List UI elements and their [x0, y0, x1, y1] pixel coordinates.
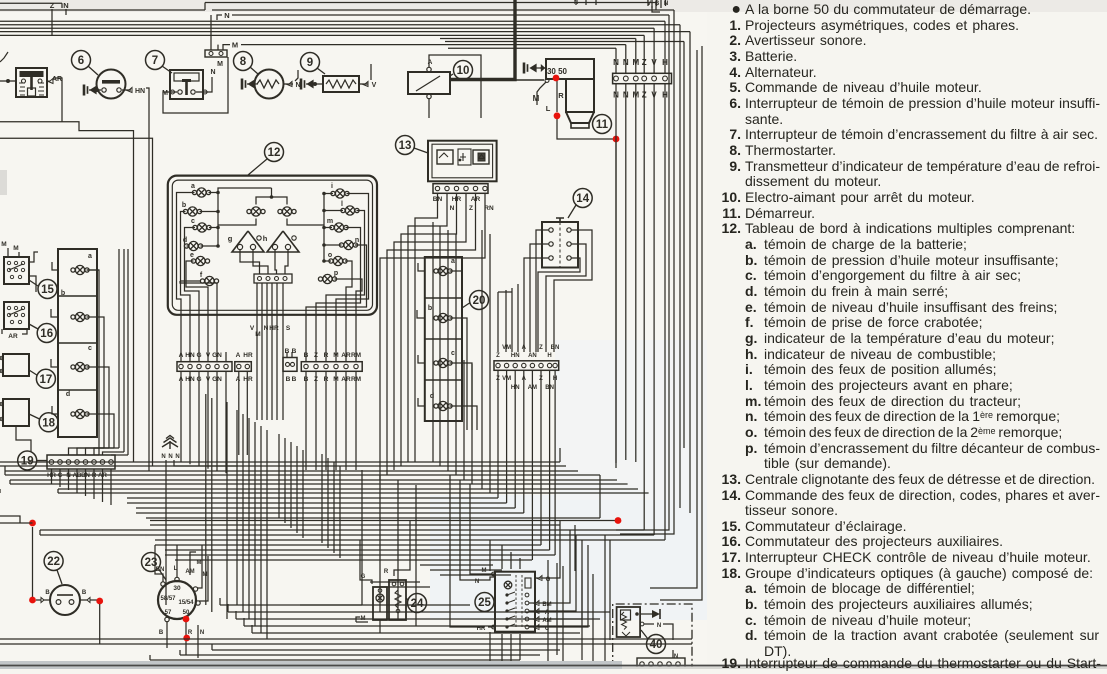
page bottom strip	[0, 661, 622, 669]
node red R	[554, 112, 561, 119]
component 5 commande niveau huile	[16, 68, 47, 97]
component 7 interrupteur filtre air	[146, 51, 165, 70]
wire strip20 right rails	[450, 270, 463, 272]
node red 23 a	[183, 616, 190, 623]
wire panel12 inner loops	[218, 188, 272, 193]
wire comp7 loop	[163, 57, 228, 113]
component 40 solenoid	[617, 607, 641, 637]
circled 15	[38, 280, 57, 299]
wire strips drop	[180, 371, 182, 462]
circled 40	[647, 635, 666, 654]
wire strip18 right rails	[87, 269, 99, 271]
wire starter to bundle	[557, 136, 616, 139]
wire lamps e f to left edge	[186, 261, 194, 270]
wire comp40 N lead	[640, 622, 644, 626]
lamp 12n	[339, 240, 357, 249]
wire strip18 left stubs	[52, 262, 58, 270]
wire comp6 HN	[122, 89, 131, 91]
wire 6pin columns down	[615, 84, 617, 468]
ground comp6	[84, 85, 100, 96]
wire comp18 lead	[16, 426, 31, 452]
lamp 12e	[191, 256, 209, 265]
wire left drop pair	[148, 98, 150, 471]
component 9 transmetteur temperature	[301, 53, 320, 72]
component 15 commutateur eclairage	[4, 257, 29, 284]
connector 40 bottom	[637, 658, 685, 669]
lamp 20d	[434, 401, 452, 410]
circled 22	[44, 552, 63, 571]
lamp 20c	[434, 358, 452, 367]
lamp 18a	[71, 265, 89, 274]
wire strip20 stubs	[418, 263, 425, 271]
wire top right stubs	[575, 0, 577, 5]
component 22 avertisseur horn	[50, 585, 80, 615]
node red 30-50	[553, 75, 560, 82]
wire comp8 right	[284, 83, 293, 85]
wire comp23 bottom	[166, 622, 168, 648]
wire conn19 drops	[51, 469, 53, 484]
wire comp7 right	[196, 91, 208, 93]
wire right bundle extras	[620, 471, 674, 534]
circled 12	[265, 143, 284, 162]
wire strip18 far rails	[118, 249, 120, 448]
wire strip20 drop rails	[481, 230, 483, 440]
ground near starter	[524, 63, 540, 74]
wire thick battery feed	[450, 0, 515, 80]
wire thick to starter terminal	[515, 79, 544, 81]
wire mesh verticals	[205, 394, 207, 605]
component 6 interrupteur pression huile	[72, 51, 91, 70]
connector 13	[433, 184, 488, 194]
ground comp8	[242, 79, 258, 90]
connector near 7	[205, 50, 227, 57]
component 14 commande feux	[542, 222, 578, 268]
wire bus right bends	[560, 3, 656, 11]
lamp 18b	[71, 312, 89, 321]
wire comp40 arrow	[640, 613, 652, 615]
wire 13 drops	[437, 193, 439, 205]
wire comp14 right hooks	[554, 230, 592, 352]
circled 17	[36, 369, 55, 388]
wire 6pin columns up	[615, 48, 617, 73]
wire lamp o p right	[345, 261, 352, 270]
lamp 12 center right	[278, 207, 296, 216]
wire AR drop	[53, 78, 62, 122]
wire panel12 left nest	[177, 193, 195, 362]
circled 10	[454, 61, 473, 80]
wire bottom full lines	[0, 638, 692, 640]
component 24 relay thermostarter	[373, 587, 387, 620]
wire left low stubs	[0, 522, 33, 524]
lamp 12m	[330, 223, 348, 232]
wire panel12 center top	[256, 197, 287, 205]
component 8 thermostarter	[234, 52, 253, 71]
wire starter R lead	[556, 80, 558, 112]
wire starter leads	[537, 82, 546, 105]
node red mesh	[615, 517, 622, 524]
wire nest corner	[652, 6, 660, 12]
gauge h triangle	[267, 231, 299, 252]
wire tree drops	[165, 460, 167, 471]
component 18 groupe indicateurs switch	[3, 399, 29, 426]
circled 25	[475, 593, 494, 612]
node red bundle	[613, 136, 620, 143]
wire panel12 center drops	[256, 352, 258, 420]
lamp 12f	[200, 276, 218, 285]
wire gauges to connector	[240, 249, 260, 274]
wire mesh horizontals	[0, 461, 560, 463]
connector panel12 inner	[254, 274, 292, 283]
wire bus N	[217, 15, 222, 20]
lamp 12a	[192, 188, 210, 197]
component 18 lamp strip	[58, 249, 97, 437]
wire bottom left bends	[219, 598, 221, 605]
wire comp15 leads	[29, 252, 38, 262]
wire comp5 leads	[0, 80, 16, 82]
ground comp9	[301, 79, 317, 90]
connector strip B-B	[283, 358, 297, 372]
lamp 12o	[329, 256, 347, 265]
circled 23	[142, 553, 161, 572]
lamp 12l	[341, 206, 359, 215]
circled 16	[37, 324, 56, 343]
component 20 lamp strip	[425, 257, 462, 421]
wire left edge verticals	[4, 466, 6, 475]
wire bottom horizontals	[220, 604, 470, 606]
wire bottom right region verticals	[489, 540, 491, 571]
wire rails into conn19	[60, 454, 99, 456]
circled 18	[39, 413, 58, 432]
connector 6pin top right	[613, 73, 672, 83]
component 17 interrupteur CHECK	[3, 354, 29, 376]
connector strip B-RM	[301, 362, 362, 372]
connector 19 strip	[47, 455, 115, 469]
wire bus M	[223, 45, 230, 50]
wire comp22 right	[90, 599, 97, 601]
wire conn14 drops	[497, 370, 499, 394]
wire mesh right bends	[599, 475, 601, 518]
lamp 20b	[434, 313, 452, 322]
wire comp22 left	[36, 599, 41, 601]
lamp 18c	[71, 362, 89, 371]
wire top bus	[0, 2, 62, 4]
component 13 centrale clignotante	[428, 141, 497, 182]
component 25 thermostarter switch box	[495, 572, 535, 632]
wire panel12 right bus	[323, 194, 325, 262]
wire comp14 extra rails	[517, 284, 519, 352]
node red 23 b	[183, 635, 190, 642]
circled 13	[396, 136, 415, 155]
lamp 20a	[434, 266, 452, 275]
node red 22 left	[29, 597, 36, 604]
node red 22 top	[29, 520, 36, 527]
lamp 12i	[331, 189, 349, 198]
component 12 tableau de bord panel	[168, 176, 377, 315]
lamp 12 center left	[247, 207, 265, 216]
wire comp24 connections	[399, 520, 410, 570]
connector strip A-HR	[235, 362, 252, 372]
gauge g triangle	[232, 231, 264, 252]
ground tree NNN	[162, 436, 178, 450]
wire panel12 left bus	[217, 193, 219, 247]
component 16 commutateur projecteurs	[4, 302, 29, 329]
circled 20	[470, 291, 489, 310]
lamp 18d	[71, 409, 89, 418]
connector strip A-GN	[177, 362, 232, 372]
wire bus lines	[0, 20, 665, 22]
wire left bus drops	[0, 122, 134, 462]
circled 19	[18, 451, 37, 470]
lamp 12p	[318, 274, 336, 283]
wire comp9 V	[359, 83, 368, 85]
component 11 demarreur	[546, 59, 594, 79]
circled 14	[573, 189, 592, 208]
circled 24	[408, 594, 427, 613]
wire comp10 frame	[429, 55, 481, 118]
circled 11	[593, 115, 612, 134]
connector 14 strip	[494, 361, 559, 371]
wire comp25 right terminals	[535, 577, 541, 579]
node red 22 right	[96, 598, 103, 605]
wire bottom right horizontals	[420, 564, 493, 566]
wire comp14 left hooks	[536, 230, 549, 352]
lamp 12d	[184, 241, 202, 250]
lamp 12c	[193, 223, 211, 232]
wire comp25 connections	[541, 520, 560, 578]
wire panel12 drop rails	[256, 283, 258, 352]
lamp 12b	[183, 207, 201, 216]
component 23 commutateur demarrage	[158, 581, 196, 619]
wire panel12 right nest	[346, 270, 352, 362]
component 10 electro-aimant	[408, 72, 450, 94]
component 40 frame dashdot	[613, 604, 692, 669]
